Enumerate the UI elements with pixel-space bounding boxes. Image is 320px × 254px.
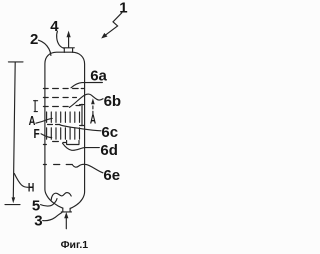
H dimension bottom bar bbox=[5, 204, 20, 206]
leader 6c bbox=[60, 125, 101, 131]
tray dashed 3 bbox=[43, 106, 80, 107]
leader H bbox=[14, 174, 28, 188]
svg-text:3: 3 bbox=[34, 212, 42, 229]
dashed view arrow A right bbox=[92, 102, 94, 114]
leader 6a bbox=[71, 83, 102, 88]
bottom inlet arrow bbox=[65, 215, 67, 229]
column shell bbox=[45, 52, 85, 208]
section line right with ticks bbox=[80, 104, 85, 126]
section bracket left bbox=[34, 101, 38, 112]
leader F bbox=[41, 134, 52, 138]
tray 6d dashed bbox=[43, 141, 79, 145]
leader 6b bbox=[69, 94, 103, 107]
svg-text:H: H bbox=[28, 183, 34, 195]
leader 2 bbox=[39, 40, 51, 55]
svg-text:6d: 6d bbox=[100, 142, 118, 159]
leader 5 bbox=[41, 199, 57, 206]
leader A left bbox=[36, 118, 52, 123]
H dimension bottom arrowhead bbox=[12, 197, 16, 203]
packing row 2 bars bbox=[47, 128, 80, 139]
top nozzle bbox=[63, 48, 74, 53]
svg-text:4: 4 bbox=[50, 18, 59, 35]
leader 6e bbox=[73, 164, 103, 173]
svg-text:6b: 6b bbox=[104, 93, 122, 110]
svg-text:2: 2 bbox=[30, 31, 38, 48]
svg-text:Фиг.1: Фиг.1 bbox=[61, 239, 89, 251]
svg-text:A: A bbox=[90, 113, 96, 127]
leader 4 bbox=[57, 31, 64, 48]
svg-text:6c: 6c bbox=[101, 124, 118, 141]
bottom nozzle bbox=[61, 208, 71, 212]
divider dashes bbox=[48, 124, 61, 126]
tray 6e dashed bbox=[43, 164, 72, 166]
svg-text:6e: 6e bbox=[103, 167, 120, 184]
zigzag arrow 1 bbox=[105, 13, 122, 36]
tray 6a dashed bbox=[43, 88, 84, 90]
tray dashed 2 bbox=[43, 97, 76, 99]
packing row 1 bars bbox=[47, 112, 80, 122]
H dimension line bbox=[13, 62, 15, 197]
svg-text:F: F bbox=[34, 126, 40, 141]
leader 6d bbox=[63, 143, 100, 150]
top outlet arrow bbox=[68, 37, 70, 48]
H dimension top bar bbox=[8, 61, 23, 63]
wavy tray 5 in bottom bbox=[51, 193, 71, 200]
leader 3 bbox=[43, 213, 62, 221]
